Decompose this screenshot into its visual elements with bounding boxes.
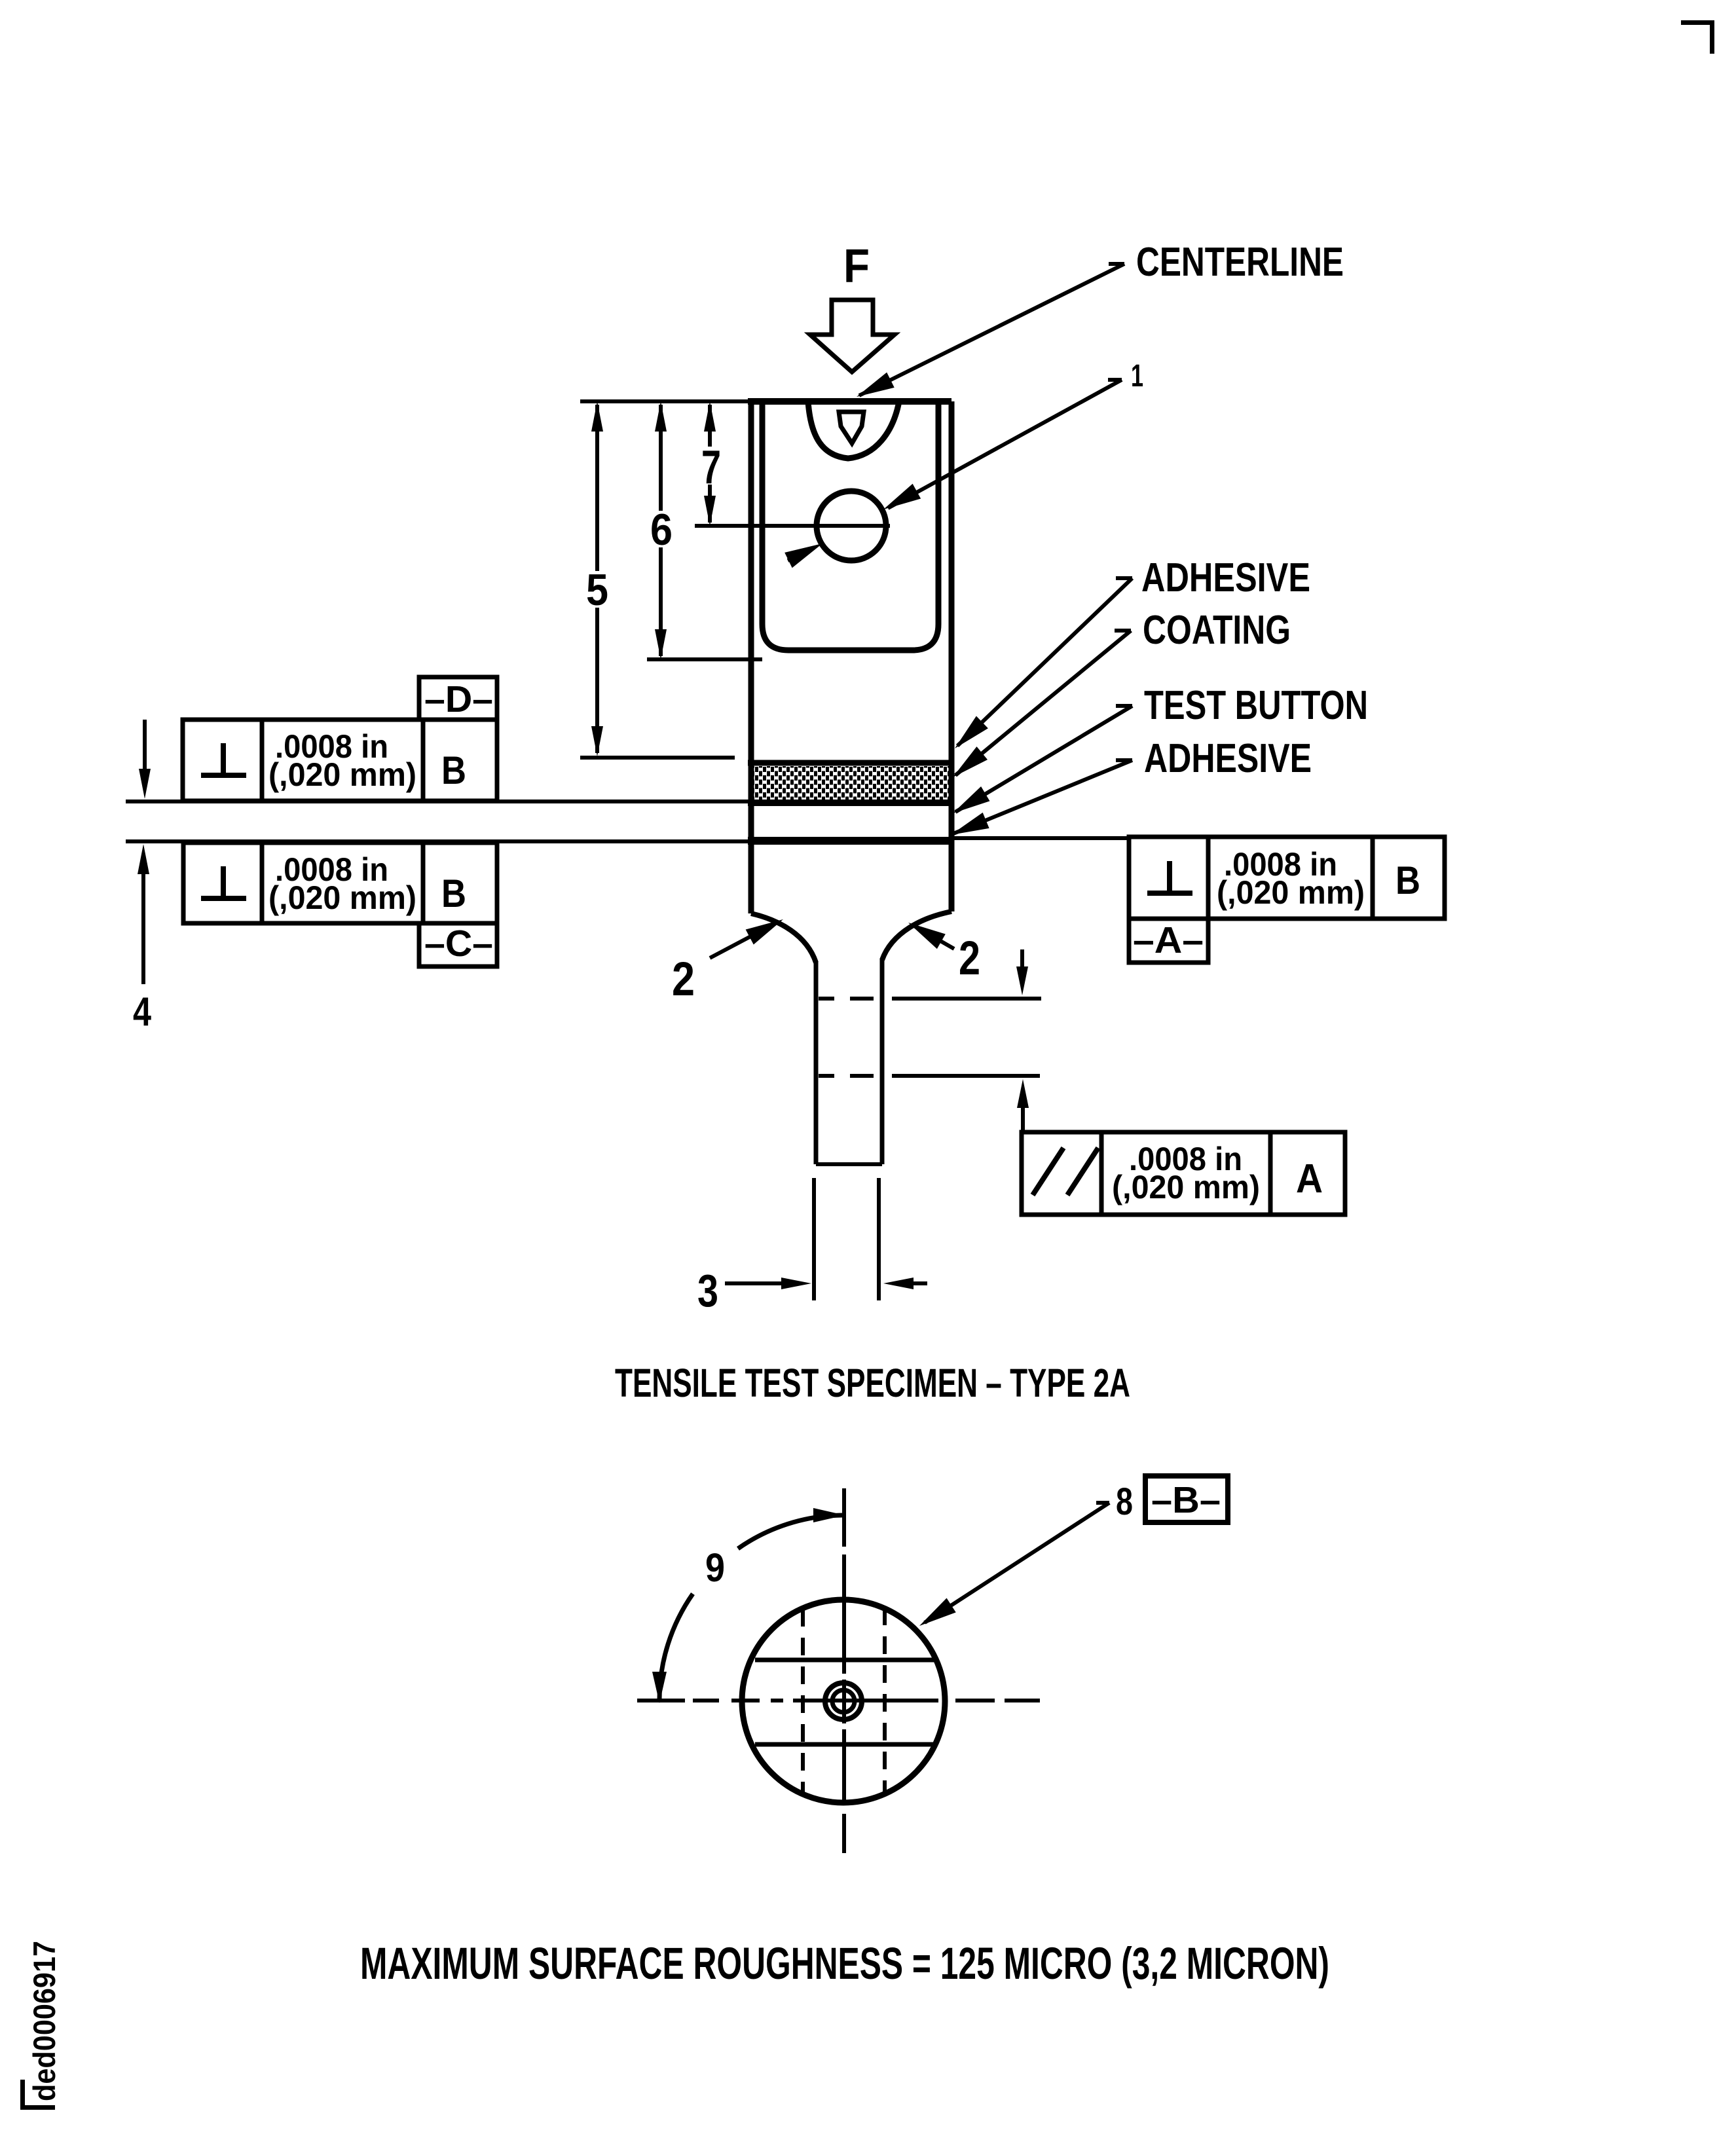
leader COATING bbox=[948, 631, 1131, 784]
horizontal centerline bbox=[637, 1699, 1040, 1702]
extension line top (dim 5/6/7 origin) bbox=[580, 399, 748, 403]
svg-text:F: F bbox=[843, 240, 870, 293]
right fillet bbox=[882, 911, 951, 960]
svg-text:5: 5 bbox=[586, 565, 608, 615]
leader TEST BUTTON bbox=[948, 706, 1132, 820]
datum box C bbox=[419, 923, 497, 966]
specimen left edge bbox=[748, 401, 754, 913]
center drill funnel bbox=[808, 401, 899, 458]
dimension 5 bbox=[586, 401, 608, 756]
svg-text:B: B bbox=[441, 872, 466, 915]
specimen top edge bbox=[748, 398, 951, 405]
recess (inner rounded pocket) bbox=[762, 401, 938, 650]
feature control frame right bbox=[1129, 837, 1445, 919]
dim 3 right arrow bbox=[883, 1278, 927, 1289]
extension line (dim 5 bottom) bbox=[580, 756, 735, 760]
svg-text:2: 2 bbox=[672, 953, 695, 1006]
svg-text:B: B bbox=[1395, 858, 1420, 902]
corner mark top-right bbox=[1681, 20, 1714, 54]
svg-text:2: 2 bbox=[959, 932, 980, 985]
stem lower right edge bbox=[877, 1178, 881, 1300]
center circles bbox=[825, 1683, 862, 1720]
leader CENTERLINE bbox=[853, 264, 1124, 405]
feature control frame upper-left bbox=[183, 720, 497, 801]
svg-text:(,020 mm): (,020 mm) bbox=[1217, 874, 1365, 911]
svg-text:1: 1 bbox=[1131, 359, 1143, 394]
svg-text:COATING: COATING bbox=[1143, 608, 1291, 653]
svg-text:7: 7 bbox=[701, 441, 721, 494]
button left edge below coating bbox=[748, 841, 754, 913]
svg-text:ADHESIVE: ADHESIVE bbox=[1144, 736, 1312, 781]
svg-text:(,020 mm): (,020 mm) bbox=[268, 756, 416, 793]
button right edge below coating bbox=[949, 841, 955, 911]
svg-text:A: A bbox=[1296, 1156, 1323, 1202]
svg-text:6: 6 bbox=[650, 505, 673, 555]
hole centerline bbox=[695, 524, 890, 528]
angle dimension 9 arc bbox=[652, 1508, 845, 1703]
dim 3 left arrow bbox=[725, 1278, 811, 1289]
svg-text:–B–: –B– bbox=[1151, 1479, 1221, 1521]
left fillet bbox=[751, 913, 816, 963]
band bottom line bbox=[748, 800, 951, 806]
corner mark bottom-left bbox=[20, 2080, 55, 2110]
small arrow into hole bbox=[785, 536, 826, 568]
svg-text:B: B bbox=[441, 748, 466, 792]
leader ADHESIVE upper bbox=[949, 578, 1132, 754]
svg-text:3: 3 bbox=[697, 1265, 718, 1316]
specimen right edge bbox=[949, 401, 955, 911]
extension line (dim 6 bottom) bbox=[647, 657, 762, 661]
svg-text:CENTERLINE: CENTERLINE bbox=[1136, 240, 1344, 285]
leader 8 bbox=[915, 1503, 1109, 1633]
force arrow (hollow) bbox=[810, 300, 895, 372]
gauge dashed line lower bbox=[819, 1074, 1040, 1078]
leader 2 right bbox=[904, 915, 954, 949]
svg-text:MAXIMUM SURFACE ROUGHNESS = 12: MAXIMUM SURFACE ROUGHNESS = 125 MICRO (3… bbox=[360, 1938, 1329, 1989]
svg-text:ded0006917: ded0006917 bbox=[27, 1941, 62, 2101]
dimension 7 bbox=[701, 401, 721, 526]
gauge dashed line upper bbox=[819, 997, 1041, 1001]
lower chord bbox=[755, 1742, 934, 1747]
dim 4 lower arrow bbox=[138, 844, 149, 984]
hidden line left bbox=[801, 1609, 805, 1795]
datum box A bbox=[1129, 919, 1208, 963]
svg-text:TEST BUTTON: TEST BUTTON bbox=[1144, 683, 1368, 728]
svg-text:(,020 mm): (,020 mm) bbox=[1112, 1169, 1260, 1205]
hidden line right bbox=[883, 1608, 887, 1794]
datum reference line right bbox=[951, 836, 1130, 840]
adhesive band top line bbox=[748, 760, 951, 766]
hole 1 bbox=[817, 491, 886, 561]
stem upper right edge bbox=[880, 959, 885, 1164]
coating bottom thick line bbox=[748, 837, 951, 845]
svg-text:–A–: –A– bbox=[1133, 919, 1204, 961]
vertical centerline bbox=[842, 1488, 846, 1853]
parallelism feature control frame bbox=[1022, 1132, 1345, 1215]
dimension 6 bbox=[650, 401, 673, 659]
arrow to lower gauge line bbox=[1017, 1079, 1029, 1132]
dim 4 upper arrow bbox=[139, 720, 151, 799]
datum box B bbox=[1145, 1476, 1228, 1522]
svg-text:–C–: –C– bbox=[424, 923, 493, 965]
leader ADHESIVE lower bbox=[948, 760, 1132, 843]
stem lower left edge bbox=[812, 1178, 816, 1300]
svg-text:ADHESIVE: ADHESIVE bbox=[1141, 555, 1310, 600]
leader 1 bbox=[879, 380, 1122, 517]
datum reference line left upper bbox=[126, 800, 748, 803]
arrow to upper gauge line bbox=[1016, 949, 1028, 995]
feature control frame lower-left bbox=[183, 843, 497, 923]
stem break line bbox=[816, 1162, 882, 1166]
svg-text:–D–: –D– bbox=[424, 678, 493, 720]
stem upper left edge bbox=[814, 961, 819, 1164]
svg-text:9: 9 bbox=[705, 1545, 725, 1590]
datum reference line left lower bbox=[126, 839, 748, 843]
leader 2 left bbox=[710, 912, 787, 958]
bottom view outer circle bbox=[742, 1600, 945, 1803]
svg-text:4: 4 bbox=[133, 989, 151, 1035]
upper chord bbox=[755, 1658, 934, 1663]
svg-text:8: 8 bbox=[1116, 1481, 1133, 1523]
adhesive stipple band bbox=[754, 766, 949, 800]
datum box D bbox=[419, 677, 497, 720]
svg-text:TENSILE TEST SPECIMEN – TYPE 2: TENSILE TEST SPECIMEN – TYPE 2A bbox=[615, 1361, 1130, 1405]
svg-text:(,020 mm): (,020 mm) bbox=[268, 879, 416, 916]
center drill V notch bbox=[839, 412, 864, 443]
